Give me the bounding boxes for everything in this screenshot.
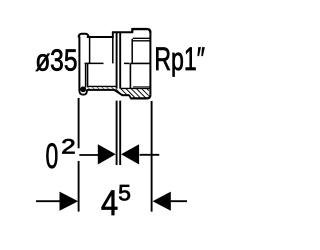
arrow 0^2 left (points right) [98,144,116,164]
bead hook outer (section) [79,88,87,95]
4^5 left tail [36,200,61,202]
0^2 right tail [140,154,160,156]
svg-text:5: 5 [118,181,131,206]
dimension extension line left [36,98,187,212]
centerline dash [85,62,104,64]
dimension extension line right [151,101,153,212]
step to body [131,29,133,33]
collar face edge to centerline [112,38,114,64]
arrow 0^2 right (points left) [121,144,139,164]
svg-text:4: 4 [101,184,118,223]
hatch body wall [131,89,149,98]
thread line outer [133,37,150,39]
thread line inner [133,40,150,42]
bead inner wall line a [85,64,87,88]
bead end face [78,37,80,91]
o-ring (section dot) [80,86,86,92]
0^2 leader [79,154,98,156]
bore edge at centerline [130,62,150,64]
tube bore line (section) [87,85,116,87]
svg-text:0: 0 [46,137,59,176]
tube top line [87,36,114,38]
body step bottom [129,95,131,98]
bead top bump [79,34,89,38]
svg-text:2: 2 [61,135,76,158]
tube outer bottom [87,89,114,91]
arrow 4^5 right (points left) [153,192,171,211]
right edge [149,32,151,95]
hatch collar wall [115,89,132,95]
bore shoulder [129,63,131,88]
line2 body shoulder (extension) [119,32,121,88]
step to collar [112,32,114,38]
bead inner wall line b [87,64,89,86]
collar top [112,31,133,33]
bead junction edge [89,37,91,63]
hatch tube wall [88,87,116,90]
body bottom [130,95,150,99]
line1 socket end (extension) [116,32,118,88]
svg-text:Rp1″: Rp1″ [154,41,205,77]
arrow 4^5 left (points right) [60,192,79,211]
body top [132,29,151,33]
centerline short dash [124,62,130,64]
body face edge to centerline [131,39,133,64]
fitting body: press socket with female thread (half section) [79,29,151,166]
body bore line bottom [121,87,150,89]
thread line bottom [133,86,150,88]
chamfer tube to collar [113,89,122,95]
4^5 right tail [171,200,187,202]
svg-text:ø35: ø35 [35,42,77,77]
collar bottom [122,94,130,96]
